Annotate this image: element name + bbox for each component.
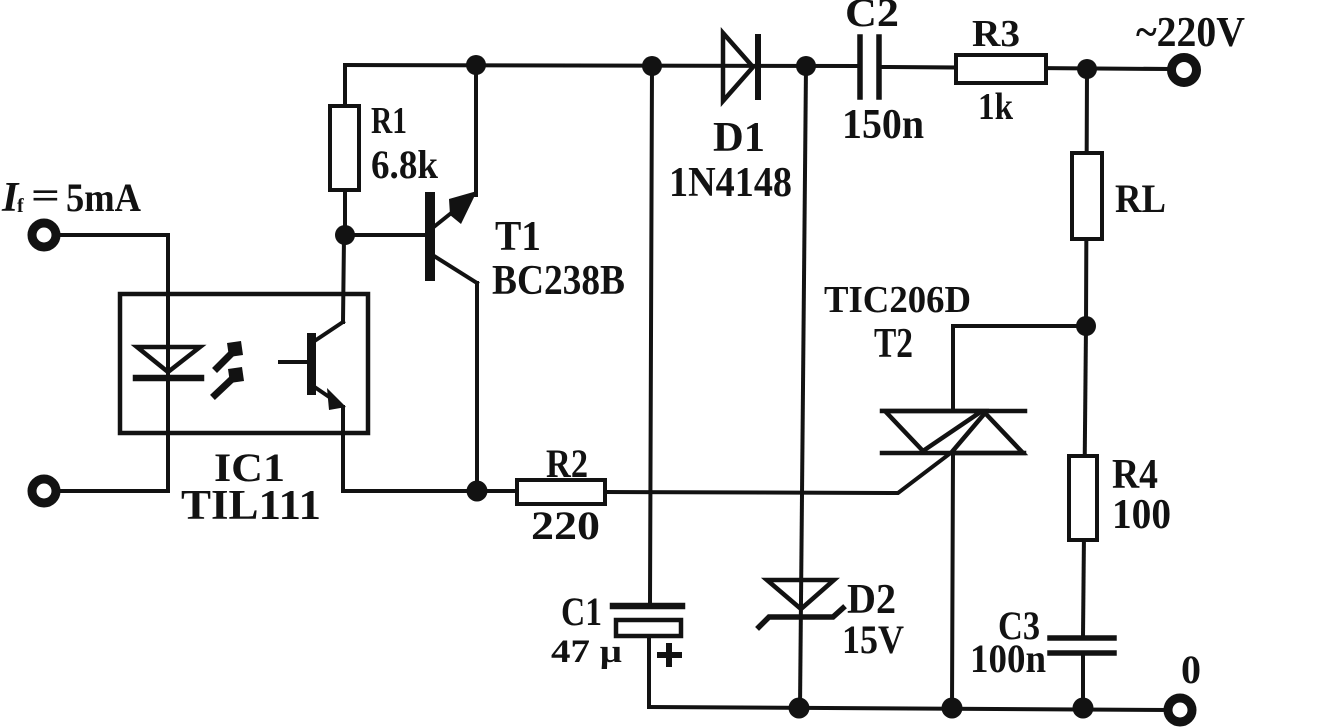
gate wire from R2 [605,455,948,493]
wire input top to LED anode [57,235,168,491]
svg-text:R3: R3 [972,13,1020,55]
node C3 bottom [1073,698,1094,719]
node triac MT2 branch [1076,316,1096,336]
svg-text:6.8k: 6.8k [371,142,439,187]
transistor T1 [425,191,477,283]
svg-text:1N4148: 1N4148 [669,160,792,206]
svg-text:TIC206D: TIC206D [824,279,971,321]
rail segment C2 to terminal [882,67,1170,69]
wire D1 node down to C1 [650,66,652,604]
terminal 0 [1168,698,1192,722]
node base of T1 [335,225,355,245]
wire phototransistor emitter down to R2 node [343,407,477,491]
node D1 anode branch [642,56,662,76]
svg-text:C1: C1 [561,589,602,634]
node R2 left junction [467,481,488,502]
top rail left segment [345,65,857,66]
resistor R2 [517,480,605,504]
light arrows [215,341,244,395]
wire phototransistor collector up to base node [343,237,344,322]
svg-text:220: 220 [531,503,600,548]
svg-text:150n: 150n [842,102,924,148]
svg-text:R2: R2 [546,441,588,486]
LED of IC1 [136,347,201,378]
svg-text:=: = [31,175,60,217]
wire triac MT1 down [952,453,953,708]
svg-text:R1: R1 [371,100,407,142]
wire MT2 node to triac [953,326,1086,411]
resistor R1 [343,66,347,235]
zener diode D2 [759,580,843,627]
svg-text:1k: 1k [978,86,1014,128]
capacitor C1 electrolytic [613,606,682,636]
plus sign of C1 [660,646,679,664]
resistor R4 [1083,326,1086,637]
phototransistor of IC1 [280,322,346,410]
terminal upper-left input [32,223,56,247]
svg-text:TIL111: TIL111 [181,483,321,529]
svg-text:15V: 15V [842,617,904,662]
wire base node to T1 [345,233,425,237]
svg-text:C2: C2 [845,0,899,35]
bottom rail [649,707,1168,710]
label IC1 TIL111 [181,445,321,529]
node D2 branch [796,56,816,76]
triac T2 [882,411,1025,453]
capacitor C3 [1050,638,1114,653]
wire input bottom to LED cathode [57,489,168,493]
capacitor C2 [860,37,879,97]
svg-text:D1: D1 [713,115,765,161]
wire C3 to bottom rail [1081,656,1085,708]
svg-text:0: 0 [1181,647,1201,692]
node D2 bottom [789,698,810,719]
svg-text:~220V: ~220V [1136,10,1245,56]
wire C1 to bottom rail [647,636,651,707]
svg-text:RL: RL [1115,176,1166,221]
node T1 collector on rail [466,55,486,75]
resistor R3 [956,55,1046,83]
terminal lower-left input [32,479,56,503]
svg-text:100n: 100n [970,636,1046,681]
resistor RL [1086,69,1087,326]
svg-text:BC238B: BC238B [492,258,625,304]
wire D2 branch vertical [800,66,806,708]
terminal ~220V [1172,58,1197,83]
wire T1 top to rail [474,66,478,195]
svg-text:100: 100 [1112,492,1171,538]
svg-text:T1: T1 [495,214,541,260]
label If=5mA [1,175,141,221]
wire T1 bottom to R2 node [475,283,479,491]
svg-text:f: f [17,195,24,217]
svg-text:T2: T2 [874,321,913,367]
node RL branch [1077,59,1097,79]
optocoupler IC1 box [120,294,368,433]
svg-text:5mA: 5mA [66,175,141,220]
diode D1 [723,33,758,101]
node triac MT1 bottom [942,698,963,719]
svg-text:47 µ: 47 µ [551,634,622,670]
